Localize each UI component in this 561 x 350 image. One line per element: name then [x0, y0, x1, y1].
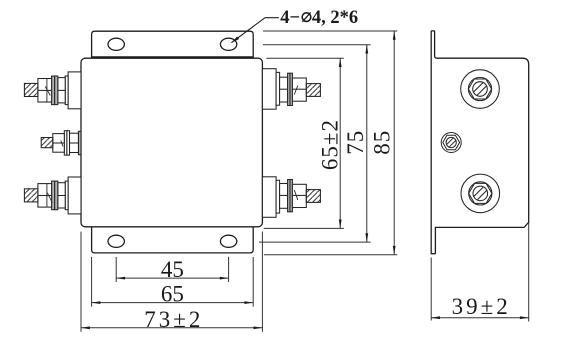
- terminal end view bottom (side view): [461, 174, 500, 213]
- terminal T2 middle-left: [41, 131, 81, 155]
- svg-text:4−: 4−: [280, 8, 300, 28]
- mounting slot top-left: [108, 38, 124, 50]
- filter body (front view): [81, 58, 262, 227]
- svg-text:75: 75: [343, 130, 368, 155]
- callout leader 4-d4: [230, 18, 279, 45]
- dimension extension lines right of front view: [259, 31, 397, 255]
- terminal T5 bottom-right: [262, 177, 320, 218]
- svg-text:73±2: 73±2: [144, 307, 203, 332]
- terminal end view top (side view): [461, 70, 500, 109]
- bottom mounting flange: [92, 227, 254, 253]
- svg-text:4, 2*6: 4, 2*6: [312, 8, 358, 28]
- dimension 65±2 vertical: [339, 58, 342, 228]
- svg-text:65±2: 65±2: [318, 119, 343, 170]
- svg-text:65: 65: [161, 282, 184, 307]
- callout text 4-ø4, 2*6: [280, 8, 358, 28]
- terminal end view middle small (side view): [441, 133, 461, 153]
- mounting slot bottom-right: [220, 235, 236, 247]
- dimension 45: [116, 277, 228, 280]
- dimension 65: [92, 301, 254, 304]
- terminal T1 top-left: [24, 72, 81, 109]
- svg-text:45: 45: [161, 257, 184, 282]
- side view outline with bent mounting tabs: [431, 31, 529, 254]
- svg-text:39±2: 39±2: [452, 294, 511, 319]
- svg-text:85: 85: [370, 130, 395, 155]
- dimension 75 vertical: [365, 45, 368, 242]
- terminal T3 bottom-left: [24, 177, 81, 214]
- mounting slot bottom-left: [108, 235, 124, 247]
- dimension 85 vertical: [393, 31, 396, 255]
- mounting slot top-right: [220, 38, 236, 50]
- dimension 73±2: [81, 326, 262, 329]
- top mounting flange: [92, 31, 254, 57]
- terminal T4 top-right: [262, 69, 320, 110]
- dimension 39±2 (side view): [431, 222, 529, 321]
- dimension extension lines below front view: [81, 232, 262, 332]
